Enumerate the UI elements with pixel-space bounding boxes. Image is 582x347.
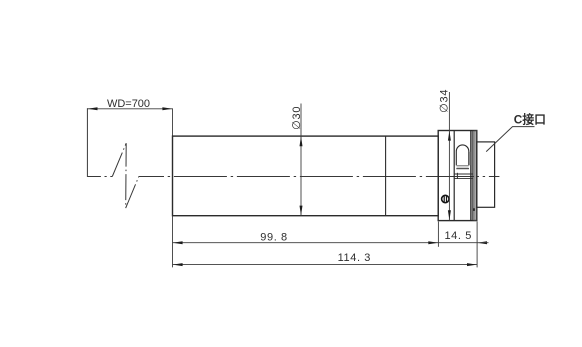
thread band screw dot <box>473 208 475 211</box>
ring thread band (gray) <box>474 131 476 220</box>
extension line below barrel left edge <box>172 216 174 268</box>
dimension 99.8: dim line <box>173 242 439 244</box>
svg-text:∅30: ∅30 <box>291 106 303 130</box>
dimension 114.3: dim line <box>173 264 478 266</box>
slot lower line 2 <box>454 173 473 175</box>
extension line below ring right edge <box>476 222 478 268</box>
dimension phi30: dim line <box>300 104 302 216</box>
lock screw slot right shadow <box>469 152 471 165</box>
dimension 114.3: right arrow <box>467 263 477 266</box>
lock screw slot (outer) <box>456 145 469 165</box>
svg-text:14. 5: 14. 5 <box>444 230 471 242</box>
svg-text:WD=700: WD=700 <box>107 98 150 110</box>
set screw slot lines <box>444 196 446 202</box>
object plane vertical line <box>86 108 88 177</box>
svg-text:C接口: C接口 <box>514 112 546 126</box>
slot lower line 1 <box>456 168 469 170</box>
dimension phi34: dim line <box>448 92 450 220</box>
label C-mount: leader line <box>486 127 534 152</box>
focus ring outline <box>438 131 477 221</box>
dimension 114.3: left arrow <box>173 263 183 266</box>
dimension phi34: down arrow <box>448 210 451 220</box>
dimension WD=700: left arrow <box>88 107 98 110</box>
main barrel outline <box>173 136 439 216</box>
dimension 99.8: left arrow <box>173 241 183 244</box>
svg-text:114. 3: 114. 3 <box>338 252 371 264</box>
set screw (front view) <box>442 195 449 202</box>
centerline (optical axis, dash-dot) <box>87 176 112 178</box>
C-mount cylinder <box>477 142 495 207</box>
dimension WD=700: right arrow <box>162 107 172 110</box>
ring inner vertical line a <box>453 131 455 221</box>
ring inner vertical line c <box>470 131 472 221</box>
dimension phi34: up arrow <box>448 131 451 141</box>
ring inner vertical line d <box>472 131 474 221</box>
dimension WD=700: dim line <box>87 108 172 110</box>
extension line below ring left edge <box>437 222 439 247</box>
dimension phi30: down arrow <box>300 206 303 216</box>
dimension phi30: up arrow <box>300 136 303 146</box>
svg-text:∅34: ∅34 <box>439 89 451 113</box>
slot bottom shading <box>456 165 468 167</box>
dimension 99.8: right arrow <box>428 241 438 244</box>
dimension 14.5: outside arrows and tails <box>438 242 477 244</box>
extension line above barrel left edge <box>172 108 174 136</box>
slot lower tick <box>456 173 458 179</box>
barrel section divider <box>385 136 387 216</box>
object distance break (zigzag) <box>112 143 139 208</box>
svg-text:99. 8: 99. 8 <box>260 231 287 243</box>
slot lower line 3 <box>454 177 473 179</box>
